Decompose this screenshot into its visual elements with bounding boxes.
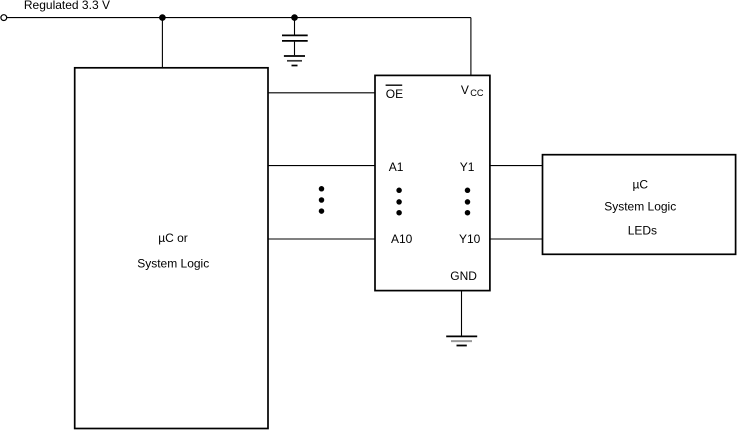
ground (buffer GND) (446, 336, 477, 345)
svg-text:GND: GND (450, 269, 477, 283)
svg-text:V: V (461, 83, 469, 97)
wire OE to left block (268, 92, 375, 94)
junction at left block supply (159, 14, 166, 21)
svg-text:µC: µC (633, 178, 649, 192)
capacitor bypass (282, 35, 308, 41)
ellipsis dots input bus (319, 186, 325, 214)
wire junction to capacitor (294, 18, 296, 35)
svg-text:OE: OE (386, 87, 403, 101)
junction at bypass capacitor (291, 14, 298, 21)
block left: uC or System Logic (75, 68, 268, 429)
wire rail to VCC pin (470, 18, 472, 76)
pin VCC (461, 83, 484, 98)
wire junction to left block top (161, 18, 163, 68)
svg-text:Regulated 3.3 V: Regulated 3.3 V (24, 0, 110, 12)
wire GND pin to ground (461, 291, 463, 336)
svg-text:A1: A1 (389, 160, 404, 174)
svg-text:System Logic: System Logic (604, 199, 676, 213)
terminal input (open circle) (1, 15, 7, 21)
svg-text:System Logic: System Logic (137, 257, 209, 271)
svg-text:Y10: Y10 (459, 232, 481, 246)
svg-text:LEDs: LEDs (628, 224, 657, 238)
block right: uC System Logic LEDs (543, 155, 736, 255)
pin OE (active low) (386, 85, 404, 101)
block buffer/driver (middle) (375, 75, 490, 290)
wire A10 to left block (268, 238, 375, 240)
wire capacitor to ground (294, 42, 296, 56)
svg-text:A10: A10 (391, 232, 413, 246)
ground (capacitor) (284, 56, 305, 66)
wire Y10 to right block (490, 238, 543, 240)
wire top supply rail (7, 17, 471, 19)
svg-text:µC or: µC or (158, 231, 188, 245)
wire A1 to left block (268, 165, 375, 167)
ellipsis dots Y-side inside buffer (465, 188, 471, 216)
svg-text:Y1: Y1 (460, 160, 475, 174)
wire Y1 to right block (490, 165, 543, 167)
ellipsis dots A-side inside buffer (396, 188, 402, 216)
svg-text:CC: CC (470, 88, 484, 98)
